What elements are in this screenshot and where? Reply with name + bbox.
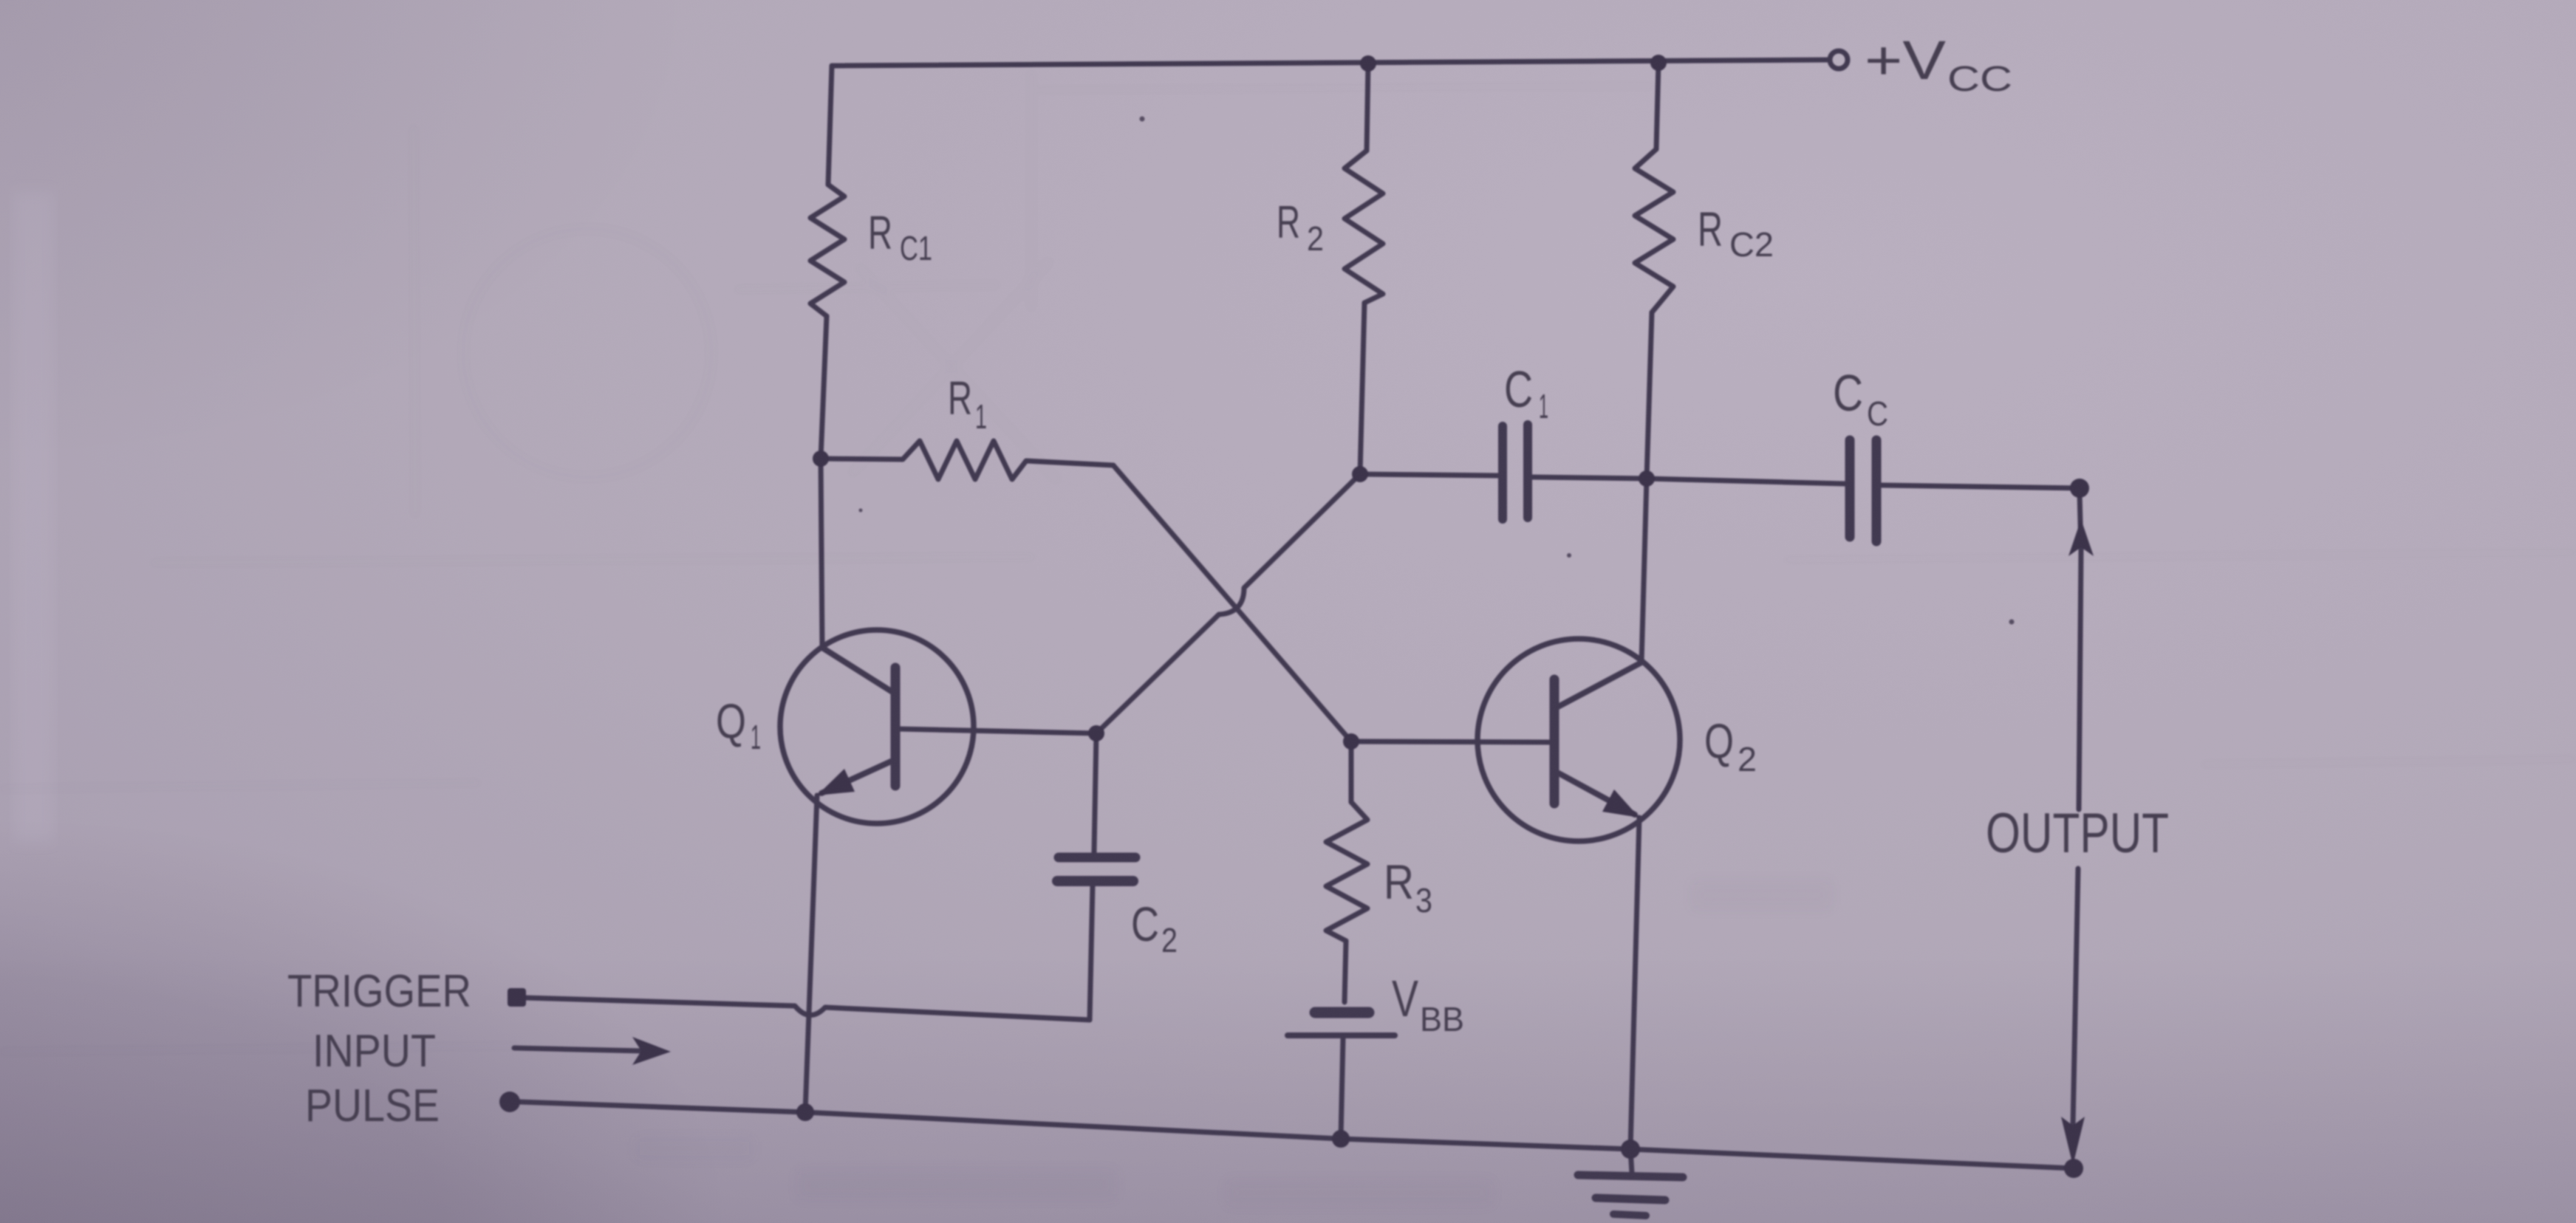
arrowhead Q1 emitter: [817, 769, 855, 795]
ink speck: [1567, 553, 1571, 558]
node Q2 base junction: [1343, 733, 1359, 750]
wire Q1 base lead: [899, 729, 1096, 733]
circuit ink: [287, 30, 2169, 1216]
wire bottom ground rail: [519, 1102, 2074, 1168]
wire C1 left lead: [1360, 474, 1499, 476]
arrowhead INPUT: [632, 1037, 671, 1065]
node trigger terminal: [508, 988, 526, 1007]
wire cross-couple R1 to Q2 base: [1113, 465, 1351, 741]
resistor RC2: [1635, 149, 1673, 312]
ink speck: [859, 509, 863, 513]
wire R3 bottom lead: [1345, 941, 1346, 1002]
arrowhead Q2 emitter: [1602, 789, 1639, 818]
ground: [1630, 1149, 1632, 1173]
wire Q2 emitter column: [1630, 818, 1639, 1149]
wire Q2 collector lead: [1641, 479, 1647, 662]
wire output stem upper: [2080, 493, 2081, 550]
wire RC1 top lead: [828, 66, 832, 185]
node top rail R2 junction: [1360, 55, 1376, 72]
arrowhead output up: [2068, 519, 2094, 556]
wire C2 top lead: [1094, 733, 1096, 852]
battery VBB: [1315, 1007, 1369, 1018]
resistor R2: [1345, 151, 1383, 303]
capacitor C2: [1059, 853, 1135, 863]
wire trigger line (dips under emitter column): [525, 998, 1090, 1020]
node VBB / rail junction: [1332, 1130, 1350, 1148]
wire R2 bottom lead: [1360, 303, 1364, 474]
wire RC2 bottom lead: [1647, 312, 1652, 479]
node pulse terminal: [499, 1092, 520, 1112]
node top rail RC2 junction: [1650, 55, 1667, 71]
ink speck: [1140, 117, 1145, 122]
node RC1/R1 junction: [813, 451, 829, 467]
wire resistor R1 row: [821, 441, 1113, 479]
wire CC left lead: [1647, 479, 1845, 484]
capacitor C1: [1498, 426, 1507, 519]
node output junction: [2070, 479, 2089, 498]
resistor RC1: [810, 185, 844, 316]
wire output line below label: [2073, 869, 2078, 1126]
wire C1 right lead: [1531, 477, 1647, 479]
node Q1 base junction: [1088, 725, 1104, 741]
wire Q2 base lead: [1351, 741, 1551, 742]
node ground / rail junction: [1621, 1140, 1640, 1159]
wire Q1 emitter column: [805, 795, 817, 1112]
capacitor CC: [1845, 440, 1855, 537]
wire R3 top lead: [1349, 741, 1354, 802]
node C1/RC2 junction: [1639, 470, 1655, 487]
wire RC1 bottom lead: [821, 316, 827, 459]
wire C2 bottom lead to trigger line: [1090, 886, 1093, 1020]
wire top supply rail: [832, 60, 1830, 66]
transistor Q1: [780, 630, 974, 823]
node R2 bottom junction: [1352, 466, 1368, 482]
node emitter column / pulse rail junction: [796, 1103, 814, 1121]
wire CC right lead to output node: [1882, 485, 2080, 488]
node bottom right corner: [2064, 1159, 2083, 1178]
wire cross-couple R2 node to Q1 base (hop at crossing): [1096, 474, 1360, 733]
wire RC2 top lead: [1656, 63, 1658, 149]
wire Q1 collector lead: [821, 459, 822, 648]
terminal +Vcc: [1830, 51, 1848, 69]
resistor R3: [1326, 802, 1367, 941]
transistor Q2: [1477, 639, 1680, 841]
arrowhead output down: [2061, 1117, 2085, 1165]
wire output line above label: [2079, 550, 2081, 809]
wire INPUT arrow shaft: [514, 1048, 641, 1051]
wire R2 top lead: [1367, 64, 1368, 151]
ink speck: [2009, 620, 2015, 625]
